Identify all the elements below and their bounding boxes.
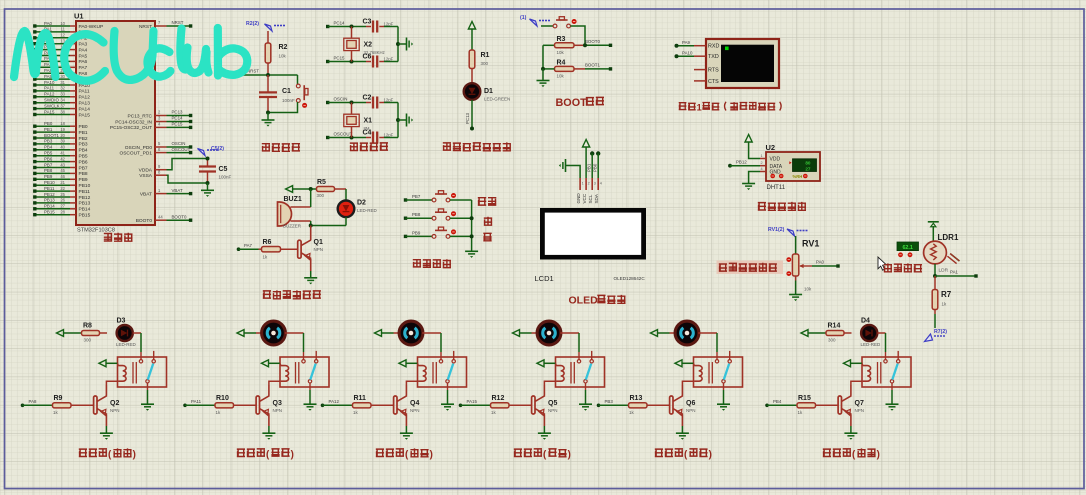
svg-text:62.1: 62.1 bbox=[902, 245, 913, 251]
motor fan relay-cooling bbox=[256, 332, 262, 334]
net PB8 wire bbox=[404, 217, 407, 220]
net PC15 wire bbox=[326, 60, 329, 63]
ground below Q4 bbox=[405, 426, 407, 433]
svg-text:): ) bbox=[568, 450, 571, 461]
svg-text:PB1: PB1 bbox=[586, 163, 591, 172]
svg-text:TXD: TXD bbox=[708, 54, 719, 60]
svg-text:PA1: PA1 bbox=[950, 270, 959, 275]
net PB4 wire bbox=[765, 404, 769, 408]
svg-text:PC13: PC13 bbox=[465, 112, 470, 124]
power VCC arrow above R1 bbox=[468, 22, 475, 30]
svg-text:2: 2 bbox=[761, 161, 763, 165]
pin PB11 wire / pin 22 bbox=[36, 190, 70, 192]
svg-text:R11: R11 bbox=[354, 395, 367, 402]
svg-text:PA4: PA4 bbox=[79, 47, 88, 53]
svg-text:X2: X2 bbox=[364, 42, 373, 49]
LED D3 LED-RED bbox=[117, 325, 133, 341]
net PC14 wire bbox=[326, 25, 329, 28]
pin PB14 wire / pin 27 bbox=[36, 208, 70, 210]
pin PA12 wire / pin 33 bbox=[36, 96, 70, 98]
capacitor C5 bbox=[207, 159, 209, 167]
svg-text:): ) bbox=[709, 450, 712, 461]
pin DATA / pin 2 bbox=[760, 165, 766, 167]
power arrow relay coil bbox=[675, 360, 682, 367]
node R5 left junction bbox=[309, 187, 313, 191]
key button PB8 bbox=[432, 209, 456, 220]
svg-text:): ) bbox=[877, 450, 880, 461]
net PA10 wire bbox=[677, 55, 694, 57]
svg-text:LDR1: LDR1 bbox=[938, 233, 959, 242]
resistor R9 1k bbox=[53, 404, 56, 406]
svg-text:PC14-OSC32_IN: PC14-OSC32_IN bbox=[115, 119, 152, 125]
relay switch blade bbox=[148, 364, 153, 380]
svg-text:GND: GND bbox=[770, 170, 782, 176]
net PA15 wire bbox=[459, 404, 463, 408]
power VCC arrow above OLED bbox=[583, 140, 590, 148]
power arrow relay-heating top bbox=[57, 330, 64, 337]
svg-text:1k: 1k bbox=[263, 254, 269, 259]
svg-text:1k: 1k bbox=[216, 410, 222, 415]
svg-text:41: 41 bbox=[60, 151, 65, 156]
power arrow relay coil bbox=[262, 360, 269, 367]
pin PA2 wire / pin 12 bbox=[36, 37, 70, 39]
transistor Q1 NPN bbox=[310, 226, 312, 241]
node C5 top junction bbox=[206, 157, 210, 161]
net PA7 wire bbox=[237, 247, 241, 251]
ground below R4 bbox=[542, 69, 544, 80]
svg-text:R10: R10 bbox=[216, 395, 229, 402]
display LCD1 OLED12864I2C bbox=[540, 208, 646, 260]
capacitor C3 12pF bbox=[366, 26, 371, 28]
caption temp-humidity-module bbox=[758, 203, 766, 211]
relay switch blade bbox=[310, 364, 315, 380]
wire key to rail bbox=[450, 235, 472, 237]
net PB7 wire bbox=[404, 198, 407, 201]
ground below relay bbox=[585, 383, 587, 390]
svg-text:PA13: PA13 bbox=[79, 101, 91, 107]
pin SWDIO wire / pin 34 bbox=[36, 102, 70, 104]
chip U1 STM32F103C8 body bbox=[76, 21, 155, 225]
wiper arrow bbox=[800, 265, 812, 267]
svg-text:44: 44 bbox=[158, 214, 163, 219]
net PB3 wire bbox=[597, 404, 601, 408]
resistor R2 10k bbox=[267, 31, 269, 43]
wire R3 to R4 bbox=[542, 45, 544, 69]
relay relay-light body bbox=[862, 357, 911, 387]
svg-text:VBAT: VBAT bbox=[172, 188, 183, 193]
pin PA10 wire / pin 31 bbox=[36, 84, 70, 86]
svg-text:Q5: Q5 bbox=[548, 400, 557, 407]
wire to relay common bbox=[440, 333, 442, 352]
pin SWCLK wire / pin 37 bbox=[36, 108, 70, 110]
ground below U2 GND bbox=[749, 172, 760, 184]
svg-text:C1: C1 bbox=[282, 88, 291, 95]
capacitor C6 12pF bbox=[366, 61, 371, 63]
power arrow relay-light top bbox=[801, 330, 808, 337]
net PA0 wire bbox=[812, 265, 837, 267]
wire coil to Q7 collector bbox=[851, 381, 863, 385]
svg-text:OSCOUT: OSCOUT bbox=[172, 147, 191, 152]
svg-text:R2(2): R2(2) bbox=[246, 21, 259, 27]
resistor R6 1k bbox=[259, 248, 262, 250]
ground below relay bbox=[147, 383, 149, 390]
svg-text:C2: C2 bbox=[363, 95, 372, 102]
resistor R13 1k bbox=[629, 404, 632, 406]
relay relay-pump body bbox=[694, 357, 743, 387]
svg-text:RTS: RTS bbox=[708, 68, 719, 74]
transistor Q2 NPN bbox=[94, 396, 97, 414]
ground below keys bbox=[465, 251, 478, 258]
svg-text:LDR: LDR bbox=[939, 267, 949, 273]
svg-text:80: 80 bbox=[805, 160, 811, 165]
svg-text:PB13: PB13 bbox=[44, 198, 55, 203]
svg-text:PB1: PB1 bbox=[44, 127, 53, 132]
svg-text:46: 46 bbox=[60, 174, 65, 179]
svg-text:Q4: Q4 bbox=[410, 400, 419, 407]
svg-text:PB5: PB5 bbox=[79, 154, 88, 160]
pin PB1 wire / pin 19 bbox=[36, 131, 70, 133]
svg-text:R12: R12 bbox=[492, 395, 505, 402]
svg-text:LED-RED: LED-RED bbox=[357, 208, 378, 213]
resistor R12 1k bbox=[491, 404, 494, 406]
probe RV1(2) bbox=[768, 227, 808, 236]
net PA12 wire bbox=[321, 404, 325, 408]
wire crystal right rail bbox=[397, 103, 399, 138]
pin PB5 wire / pin 41 bbox=[36, 155, 70, 157]
resistor R1 300 bbox=[469, 50, 475, 69]
caption reset-circuit bbox=[262, 143, 270, 151]
svg-text:D1: D1 bbox=[484, 88, 493, 95]
relay switch blade bbox=[448, 364, 453, 380]
crystal X1 bbox=[350, 101, 354, 105]
net PB1 terminal bbox=[590, 151, 594, 155]
svg-text:PA12: PA12 bbox=[79, 95, 91, 101]
svg-text:PB11: PB11 bbox=[79, 189, 91, 195]
node C5 bottom junction bbox=[206, 181, 210, 185]
probe C5(2) bbox=[198, 146, 225, 156]
LED D2 LED-RED lit bbox=[338, 201, 355, 218]
svg-text:PB12: PB12 bbox=[44, 192, 55, 197]
resistor R3 10k bbox=[543, 44, 555, 46]
caption set bbox=[478, 198, 486, 206]
svg-text:R8: R8 bbox=[83, 322, 92, 329]
caption soil-moisture-adjust bbox=[717, 261, 784, 275]
svg-text:25: 25 bbox=[60, 192, 65, 197]
svg-text:1k: 1k bbox=[629, 410, 635, 415]
power arrow relay coil bbox=[99, 360, 106, 367]
ground below Q1 bbox=[310, 271, 312, 278]
svg-text:PC15-OSC32_OUT: PC15-OSC32_OUT bbox=[110, 125, 152, 131]
capacitor C4 12pF bbox=[366, 137, 371, 139]
svg-text:BOOT0: BOOT0 bbox=[172, 214, 187, 219]
relay relay-cooling body bbox=[280, 357, 329, 387]
svg-text:R3: R3 bbox=[557, 36, 566, 43]
ground below RV1 bbox=[795, 276, 797, 281]
svg-text:40: 40 bbox=[60, 145, 65, 150]
pin BOOT1 wire / pin 20 bbox=[36, 137, 70, 139]
svg-text:C3: C3 bbox=[363, 19, 372, 26]
transistor Q6 NPN bbox=[670, 396, 673, 414]
relay switch blade bbox=[724, 364, 729, 380]
svg-text:1: 1 bbox=[697, 103, 702, 113]
svg-text:VSSA: VSSA bbox=[139, 173, 153, 179]
net PB9 wire bbox=[404, 235, 407, 238]
svg-text:38: 38 bbox=[60, 109, 65, 114]
wire to relay common bbox=[716, 333, 718, 352]
svg-text:PA3: PA3 bbox=[79, 42, 88, 48]
node buzzer bottom junction bbox=[309, 224, 313, 228]
svg-text:PC15: PC15 bbox=[334, 56, 346, 61]
boot button bbox=[541, 25, 553, 27]
resistor R4 10k bbox=[555, 66, 575, 71]
svg-text:VCC: VCC bbox=[582, 193, 587, 203]
svg-text:X1: X1 bbox=[364, 118, 373, 125]
svg-text:45: 45 bbox=[60, 168, 65, 173]
net PA1 wire bbox=[935, 275, 975, 277]
svg-text:RV1(2): RV1(2) bbox=[768, 227, 785, 233]
ground below relay bbox=[309, 383, 311, 390]
svg-text:PB9: PB9 bbox=[412, 230, 421, 235]
svg-text:37: 37 bbox=[60, 103, 65, 108]
svg-text:(1): (1) bbox=[520, 15, 527, 21]
pin PA11 wire / pin 32 bbox=[36, 90, 70, 92]
svg-text:PB3: PB3 bbox=[79, 142, 88, 148]
pin PB8 wire / pin 45 bbox=[36, 172, 70, 174]
caption minus bbox=[483, 233, 491, 241]
svg-text:SDA: SDA bbox=[594, 193, 599, 203]
svg-text:GND: GND bbox=[576, 193, 581, 204]
crystal X2 bbox=[350, 25, 354, 29]
svg-text:PA0: PA0 bbox=[816, 260, 825, 265]
svg-text:Q3: Q3 bbox=[273, 400, 282, 407]
motor fan relay-dehumidify bbox=[532, 332, 538, 334]
wire D2 to junction bbox=[345, 217, 347, 225]
svg-text:32: 32 bbox=[60, 86, 65, 91]
svg-text:NPN: NPN bbox=[314, 247, 324, 252]
svg-text:R4: R4 bbox=[557, 60, 566, 67]
capacitor C2 12pF bbox=[366, 102, 371, 104]
svg-text:PC13_RTC: PC13_RTC bbox=[128, 113, 153, 119]
wire to relay common bbox=[303, 333, 305, 352]
relay switch blade bbox=[892, 364, 897, 380]
svg-text:PC13: PC13 bbox=[172, 110, 184, 115]
svg-text:PB4: PB4 bbox=[44, 145, 53, 150]
pin PA0 wire / pin 10 bbox=[36, 25, 70, 27]
svg-text:U2: U2 bbox=[766, 143, 776, 152]
power arrow relay-cooling top bbox=[237, 330, 244, 337]
svg-text:PB11: PB11 bbox=[44, 186, 55, 191]
caption main-chip bbox=[104, 233, 112, 241]
svg-text:CTS: CTS bbox=[708, 79, 719, 85]
relay relay-heating body bbox=[118, 357, 167, 387]
power arrow relay-humidify top bbox=[375, 330, 382, 337]
svg-text:%RH: %RH bbox=[793, 174, 803, 179]
svg-text:42: 42 bbox=[60, 156, 65, 161]
transistor Q5 NPN bbox=[532, 396, 535, 414]
svg-text:31: 31 bbox=[60, 80, 65, 85]
LDR value display bbox=[897, 242, 919, 251]
svg-text:PB2: PB2 bbox=[79, 136, 88, 142]
capacitor C1 100nF bbox=[267, 75, 269, 92]
caption program-run-indicator bbox=[443, 142, 451, 150]
svg-text:PB4: PB4 bbox=[773, 399, 782, 404]
svg-text:PA12: PA12 bbox=[329, 399, 340, 404]
motor fan relay-pump bbox=[670, 332, 676, 334]
probe R7(2) bbox=[925, 334, 933, 342]
wire key rail bbox=[471, 200, 473, 251]
svg-text:27: 27 bbox=[60, 204, 65, 209]
pin PA8 wire / pin 29 bbox=[36, 72, 70, 74]
svg-text:VDDA: VDDA bbox=[139, 168, 153, 174]
transistor Q3 NPN bbox=[256, 396, 259, 414]
wire buzzer pins bbox=[291, 206, 311, 208]
pin PB9 wire / pin 46 bbox=[36, 178, 70, 180]
svg-text:PB14: PB14 bbox=[79, 207, 91, 213]
svg-text:PA14: PA14 bbox=[79, 106, 91, 112]
svg-text:1: 1 bbox=[761, 154, 763, 158]
svg-text:LED-RED: LED-RED bbox=[861, 342, 882, 347]
svg-text:10k: 10k bbox=[279, 54, 287, 59]
power VCC arrow above U2 bbox=[745, 135, 752, 143]
svg-text:OSCOUT_PD1: OSCOUT_PD1 bbox=[119, 150, 152, 156]
caption relay-light bbox=[823, 449, 831, 457]
power arrow left of R5 bbox=[286, 186, 293, 193]
svg-text:BOOT0: BOOT0 bbox=[585, 39, 600, 44]
svg-text:NPN: NPN bbox=[548, 408, 558, 413]
svg-text:21: 21 bbox=[60, 180, 65, 185]
svg-text:BOOT: BOOT bbox=[556, 97, 588, 109]
svg-text:Q1: Q1 bbox=[314, 239, 323, 246]
net PA11 wire bbox=[183, 404, 187, 408]
pin PA9 wire / pin 30 bbox=[36, 78, 70, 80]
svg-text:PB8: PB8 bbox=[79, 171, 88, 177]
svg-text:PB0: PB0 bbox=[592, 163, 597, 172]
caption independent-keys bbox=[413, 259, 421, 267]
svg-text:RXD: RXD bbox=[708, 44, 719, 50]
svg-text:PB15: PB15 bbox=[44, 210, 55, 215]
svg-text:PA10: PA10 bbox=[44, 80, 55, 85]
caption light-adjust bbox=[884, 263, 892, 271]
ground below C5 bbox=[207, 183, 209, 190]
ground below C1 bbox=[267, 113, 269, 120]
svg-text:): ) bbox=[430, 450, 433, 461]
terminal cursor bbox=[725, 47, 729, 51]
pin PB0 wire / pin 18 bbox=[36, 125, 70, 127]
pin PA7 wire / pin 17 bbox=[36, 66, 70, 68]
svg-text:OSCIN: OSCIN bbox=[334, 97, 348, 102]
key button PB9 bbox=[432, 227, 456, 238]
svg-text:PA11: PA11 bbox=[44, 86, 55, 91]
svg-text:PB12: PB12 bbox=[79, 195, 91, 201]
svg-text:R9: R9 bbox=[54, 395, 63, 402]
svg-text:20: 20 bbox=[60, 133, 65, 138]
svg-text:PB8: PB8 bbox=[44, 168, 53, 173]
pin PA15 wire / pin 38 bbox=[36, 114, 70, 116]
svg-text:LCD1: LCD1 bbox=[535, 274, 554, 283]
wire to relay common bbox=[885, 333, 887, 352]
svg-text:VDD: VDD bbox=[770, 157, 781, 163]
svg-text:PA10: PA10 bbox=[682, 50, 693, 55]
svg-text:3: 3 bbox=[594, 182, 596, 186]
photoresistor LDR1 bbox=[924, 241, 947, 264]
pin PA4 wire / pin 14 bbox=[36, 49, 70, 51]
svg-text:PB10: PB10 bbox=[44, 180, 55, 185]
caption plus bbox=[484, 217, 492, 225]
svg-text:PB7: PB7 bbox=[79, 165, 88, 171]
net NRST wire bbox=[236, 74, 298, 76]
svg-text:PA11: PA11 bbox=[191, 399, 202, 404]
svg-text:PA6: PA6 bbox=[79, 59, 88, 65]
svg-text:PA0-WKUP: PA0-WKUP bbox=[79, 24, 104, 30]
resistor R10 1k bbox=[215, 404, 218, 406]
power arrow relay coil bbox=[399, 360, 406, 367]
svg-text:PB9: PB9 bbox=[44, 174, 53, 179]
svg-text:PA11: PA11 bbox=[79, 89, 90, 95]
svg-text:): ) bbox=[133, 450, 136, 461]
svg-text:28: 28 bbox=[60, 210, 65, 215]
OLED pins GND VCC SCL SDA bbox=[579, 178, 581, 190]
svg-text:SCL: SCL bbox=[588, 194, 593, 203]
wire coil to Q4 collector bbox=[406, 381, 418, 385]
svg-text:22: 22 bbox=[60, 186, 65, 191]
ground right of crystal bbox=[398, 43, 407, 45]
resistor R15 1k bbox=[797, 404, 800, 406]
node PA1 junction bbox=[934, 264, 936, 276]
svg-text:33: 33 bbox=[60, 92, 65, 97]
svg-text:Q7: Q7 bbox=[855, 400, 864, 407]
svg-text:PB15: PB15 bbox=[79, 213, 91, 219]
svg-text:PC15: PC15 bbox=[172, 122, 184, 127]
svg-text:BOOT1: BOOT1 bbox=[44, 133, 59, 138]
wire coil to Q5 collector bbox=[544, 381, 556, 385]
wire coil to Q3 collector bbox=[269, 381, 281, 385]
svg-text:SWDIO: SWDIO bbox=[44, 98, 59, 103]
svg-text:27: 27 bbox=[805, 167, 811, 172]
svg-text:34: 34 bbox=[60, 98, 65, 103]
svg-text:R7(2): R7(2) bbox=[934, 329, 947, 335]
relay relay-humidify body bbox=[418, 357, 467, 387]
svg-text:PA7: PA7 bbox=[244, 243, 253, 248]
svg-text:PB9: PB9 bbox=[79, 177, 88, 183]
svg-text:R6: R6 bbox=[263, 239, 272, 246]
svg-text:18: 18 bbox=[60, 121, 65, 126]
svg-text:300: 300 bbox=[481, 61, 489, 66]
net PA9 wire bbox=[677, 45, 694, 47]
net PC13 wire bbox=[471, 100, 473, 127]
svg-text:OLED: OLED bbox=[569, 295, 599, 307]
caption relay-heating bbox=[79, 449, 87, 457]
svg-text:): ) bbox=[291, 450, 294, 461]
svg-text:PB14: PB14 bbox=[44, 204, 55, 209]
caption relay-pump bbox=[655, 449, 663, 457]
ground below Q6 bbox=[681, 426, 683, 433]
transistor Q7 NPN bbox=[838, 396, 841, 414]
key button PB7 bbox=[432, 191, 456, 202]
net PA8 wire bbox=[21, 404, 25, 408]
virtual terminal body bbox=[706, 39, 779, 88]
svg-text:OSCIN_PD0: OSCIN_PD0 bbox=[125, 145, 153, 151]
pin GND / pin 4 bbox=[760, 171, 766, 173]
svg-text:300: 300 bbox=[84, 337, 92, 342]
svg-text:C5: C5 bbox=[219, 166, 228, 173]
pin PA5 wire / pin 15 bbox=[36, 55, 70, 57]
caption serial-window bbox=[679, 103, 687, 110]
svg-text:R7: R7 bbox=[941, 290, 952, 299]
svg-text:DHT11: DHT11 bbox=[767, 185, 786, 191]
svg-text:R2: R2 bbox=[279, 44, 288, 51]
svg-text:PB10: PB10 bbox=[79, 183, 91, 189]
svg-text:PB3: PB3 bbox=[44, 139, 53, 144]
